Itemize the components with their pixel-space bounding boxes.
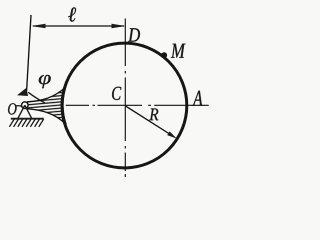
phi arc (28, 92, 45, 103)
label C (112, 87, 121, 100)
support triangle (18, 105, 32, 118)
leader dash O (16, 105, 21, 107)
label D (128, 28, 140, 41)
label R (149, 109, 158, 121)
arm (hatched bell link) (28, 87, 67, 125)
label A (192, 91, 202, 106)
radius arrowhead (167, 131, 177, 138)
label M (171, 44, 186, 58)
dimension arrowhead left (31, 24, 45, 29)
disk circle (62, 43, 187, 168)
ground line (11, 118, 44, 120)
label O (8, 103, 17, 114)
horizontal centerline (66, 104, 209, 106)
vertical centerline (124, 19, 126, 178)
label phi (39, 75, 51, 88)
point M (161, 52, 167, 58)
phi arrowhead (17, 88, 28, 96)
radius line R (126, 106, 172, 135)
label l (68, 7, 76, 21)
ground hatching (9, 119, 43, 127)
dimension line l (33, 25, 124, 27)
pin O (22, 102, 29, 109)
extension line at pivot (27, 15, 31, 91)
dimension arrowhead right (112, 24, 126, 29)
